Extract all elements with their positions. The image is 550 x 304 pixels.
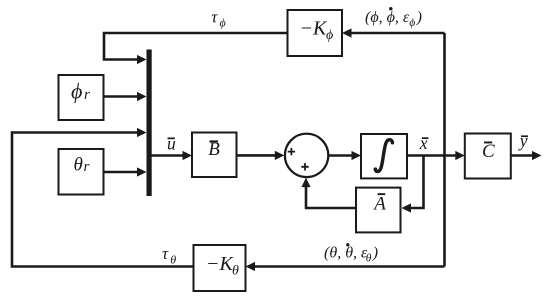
svg-text:): ) [416,9,422,26]
label y_bar [518,131,528,151]
block integrator [361,134,407,178]
wire right vertical feedback tap [443,33,446,267]
wire (phi,phidot,eps) into -K_phi [349,32,445,35]
svg-text:(θ, θ, ε: (θ, θ, ε [324,245,368,262]
block A_bar [356,188,401,233]
svg-text:u: u [167,133,176,153]
label u_bar [167,133,176,153]
svg-text:r: r [84,87,90,103]
svg-text:x: x [419,133,428,153]
svg-text:−K: −K [300,17,328,39]
wire theta_r to mux bar [104,171,141,174]
svg-text:y: y [518,131,528,151]
wire x_bar: integrator to C block (crosses vertical tap) [407,154,458,157]
block C_bar [465,134,511,179]
svg-text:ϕ: ϕ [409,17,415,29]
svg-text:−K: −K [206,253,234,275]
wire u_bar: mux bar to B block [152,154,186,157]
summing junction [285,134,328,177]
svg-text:θ: θ [170,253,176,267]
wire bottom (theta...) into -K_theta [253,265,445,268]
svg-text:(ϕ, ϕ, ε: (ϕ, ϕ, ε [365,9,410,26]
svg-text:A: A [372,194,386,215]
svg-text:τ: τ [211,7,218,26]
svg-text:θ: θ [232,264,239,279]
svg-text:θ: θ [366,253,372,265]
block -K_theta [194,245,246,291]
svg-text:ϕ: ϕ [220,16,226,30]
mux bar [147,50,152,197]
svg-text:θ: θ [74,155,83,176]
svg-text:ϕ: ϕ [71,79,82,104]
wire phi_r to mux bar [104,95,141,98]
label (theta, thetadot, eps_theta) [324,243,378,265]
label (phi, phidot, eps_phi) [365,7,422,29]
svg-text:τ: τ [162,244,169,263]
wire y_bar output [511,154,535,157]
label x_bar [419,133,429,153]
block -K_phi [288,10,343,56]
svg-text:ϕ: ϕ [326,28,333,43]
wire A block output up into summing junction [306,184,356,208]
svg-text:r: r [84,159,90,175]
wire summing junction to integrator [329,154,355,157]
wire tau_phi feedback: from -K_phi output left, down, into mux bar [104,33,288,60]
svg-text:C: C [482,141,495,162]
wire B to summing junction [237,154,278,157]
wire tau_theta from -K_theta left, around bottom-left, into mux bar [12,133,194,267]
svg-text:): ) [372,245,378,262]
wire x_bar branch down into A block [408,156,424,209]
block B_bar [192,133,237,178]
block theta_r [59,149,104,195]
block phi_r [59,75,104,120]
label tau_theta [162,244,176,266]
label tau_phi [211,7,225,29]
